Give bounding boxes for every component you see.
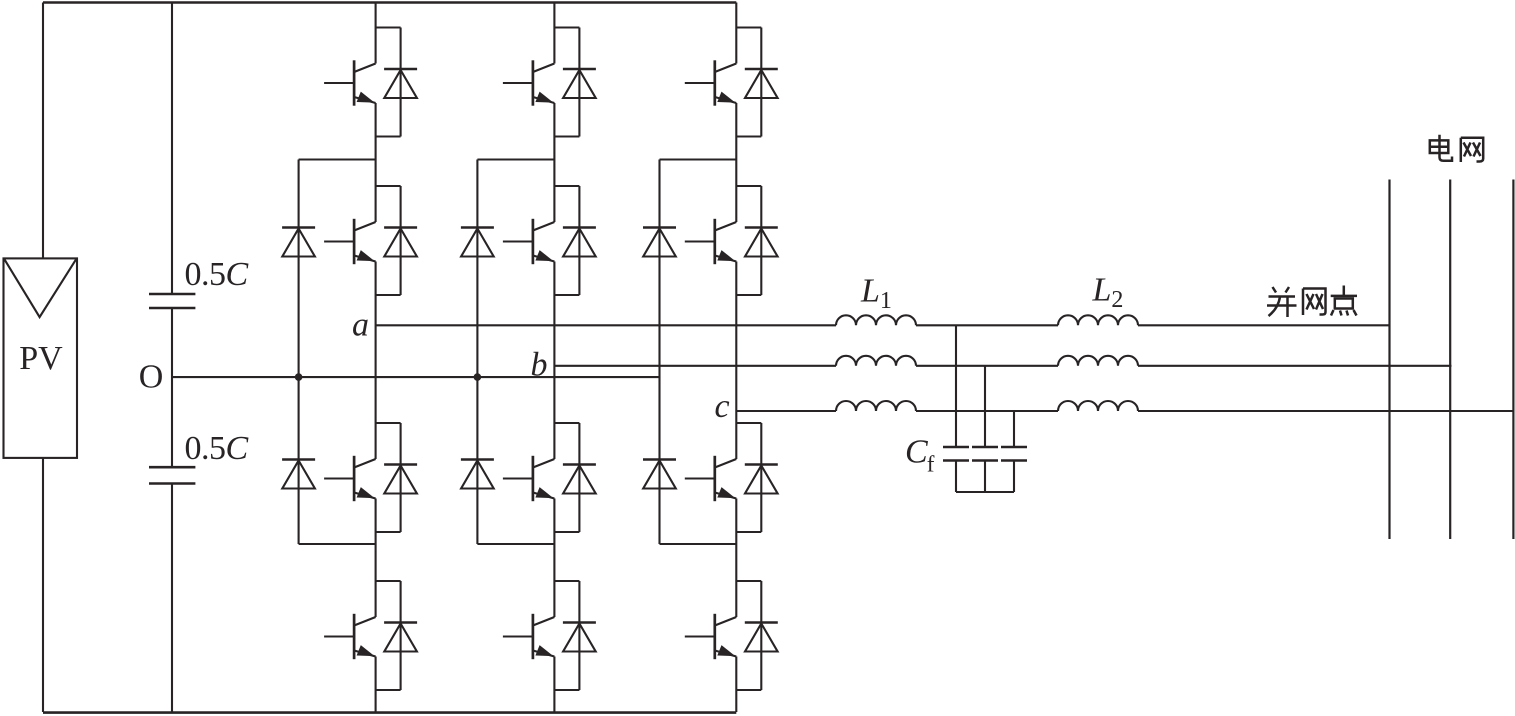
transistor Q6 (leg b, inner upper) with antiparallel diode [503,186,596,295]
wire: phase a from L2 to grid [1138,324,1390,326]
svg-text:0.5C: 0.5C [185,256,249,293]
junction dot: O bus / leg-b clamp branch [474,373,482,381]
capacitor C1 0.5C (upper) [149,294,195,308]
wire: PV positive lead [42,3,44,259]
grid bus bar 1 [1388,180,1390,540]
transistor Q1 (leg a, outer upper) with antiparallel diode [324,28,417,137]
wire: leg a clamp branch [299,160,376,545]
clamping diode D2 (leg a lower) [282,460,315,489]
transistor Q4 (leg a, outer lower) with antiparallel diode [324,581,417,690]
wire: phase b between L1 and L2 [916,365,1058,367]
wire: DC-link capacitor string [171,3,173,713]
wire: phase c from L2 to grid [1138,410,1514,412]
wire: phase b from leg to L1 [554,365,836,367]
wire: PV negative lead [42,458,44,712]
transistor Q3 (leg a, inner lower) with antiparallel diode [324,423,417,532]
PV panel symbol [4,258,78,458]
inductor L1 (phase c) [836,401,916,411]
wire: Cf tap phase c [1013,411,1015,447]
svg-text:Cf: Cf [905,434,935,477]
wire: top DC rail [43,1,736,3]
inductor L1 (phase a) [836,315,916,325]
capacitor Cf (phase a) [943,447,969,461]
transistor Q9 (leg c, outer upper) with antiparallel diode [685,28,778,137]
transistor Q7 (leg b, inner lower) with antiparallel diode [503,423,596,532]
junction dot: O bus / leg-a clamp branch [295,373,303,381]
clamping diode D5 (leg c upper) [643,228,676,257]
wire: phase c between L1 and L2 [916,410,1058,412]
wire: neutral bus O [172,376,660,378]
wire: phase a between L1 and L2 [916,324,1058,326]
capacitor Cf (phase b) [972,447,998,461]
svg-text:0.5C: 0.5C [185,430,249,467]
transistor Q12 (leg c, outer lower) with antiparallel diode [685,581,778,690]
wire: Cf tap phase b [984,366,986,447]
wire: leg b main vertical [553,3,555,713]
svg-text:L1: L1 [860,273,892,315]
svg-text:c: c [714,388,729,425]
inductor L2 (phase a) [1058,315,1138,325]
svg-text:a: a [352,307,369,344]
svg-text:PV: PV [19,340,63,377]
wire: leg c clamp branch [660,160,737,545]
wire: phase b from L2 to grid [1138,365,1452,367]
svg-text:L2: L2 [1092,272,1124,314]
label 并网点 (grid connection point) [1267,286,1357,318]
wire: phase a from leg to L1 [376,324,836,326]
wire: leg a main vertical [375,3,377,713]
inductor L2 (phase b) [1058,356,1138,366]
clamping diode D3 (leg b upper) [461,228,494,257]
transistor Q11 (leg c, inner lower) with antiparallel diode [685,423,778,532]
transistor Q8 (leg b, outer lower) with antiparallel diode [503,581,596,690]
label 电网 (power grid) [1430,135,1483,162]
clamping diode D4 (leg b lower) [461,460,494,489]
transistor Q5 (leg b, outer upper) with antiparallel diode [503,28,596,137]
wire: Cf tap phase a [955,325,957,447]
wire: bottom DC rail [43,711,736,714]
clamping diode D1 (leg a upper) [282,228,315,257]
capacitor Cf (phase c) [1001,447,1027,461]
clamping diode D6 (leg c lower) [643,460,676,489]
transistor Q10 (leg c, inner upper) with antiparallel diode [685,186,778,295]
wire: leg b clamp branch [477,160,554,545]
wire: phase c from leg to L1 [736,410,836,412]
grid bus bar 3 [1512,180,1514,540]
grid bus bar 2 [1449,180,1451,540]
inductor L2 (phase c) [1058,401,1138,411]
wire: Cf common star point [956,461,1014,493]
transistor Q2 (leg a, inner upper) with antiparallel diode [324,186,417,295]
svg-text:b: b [531,347,548,384]
inductor L1 (phase b) [836,356,916,366]
capacitor C2 0.5C (lower) [149,467,195,483]
svg-text:O: O [139,359,164,396]
wire: leg c main vertical [735,3,737,713]
